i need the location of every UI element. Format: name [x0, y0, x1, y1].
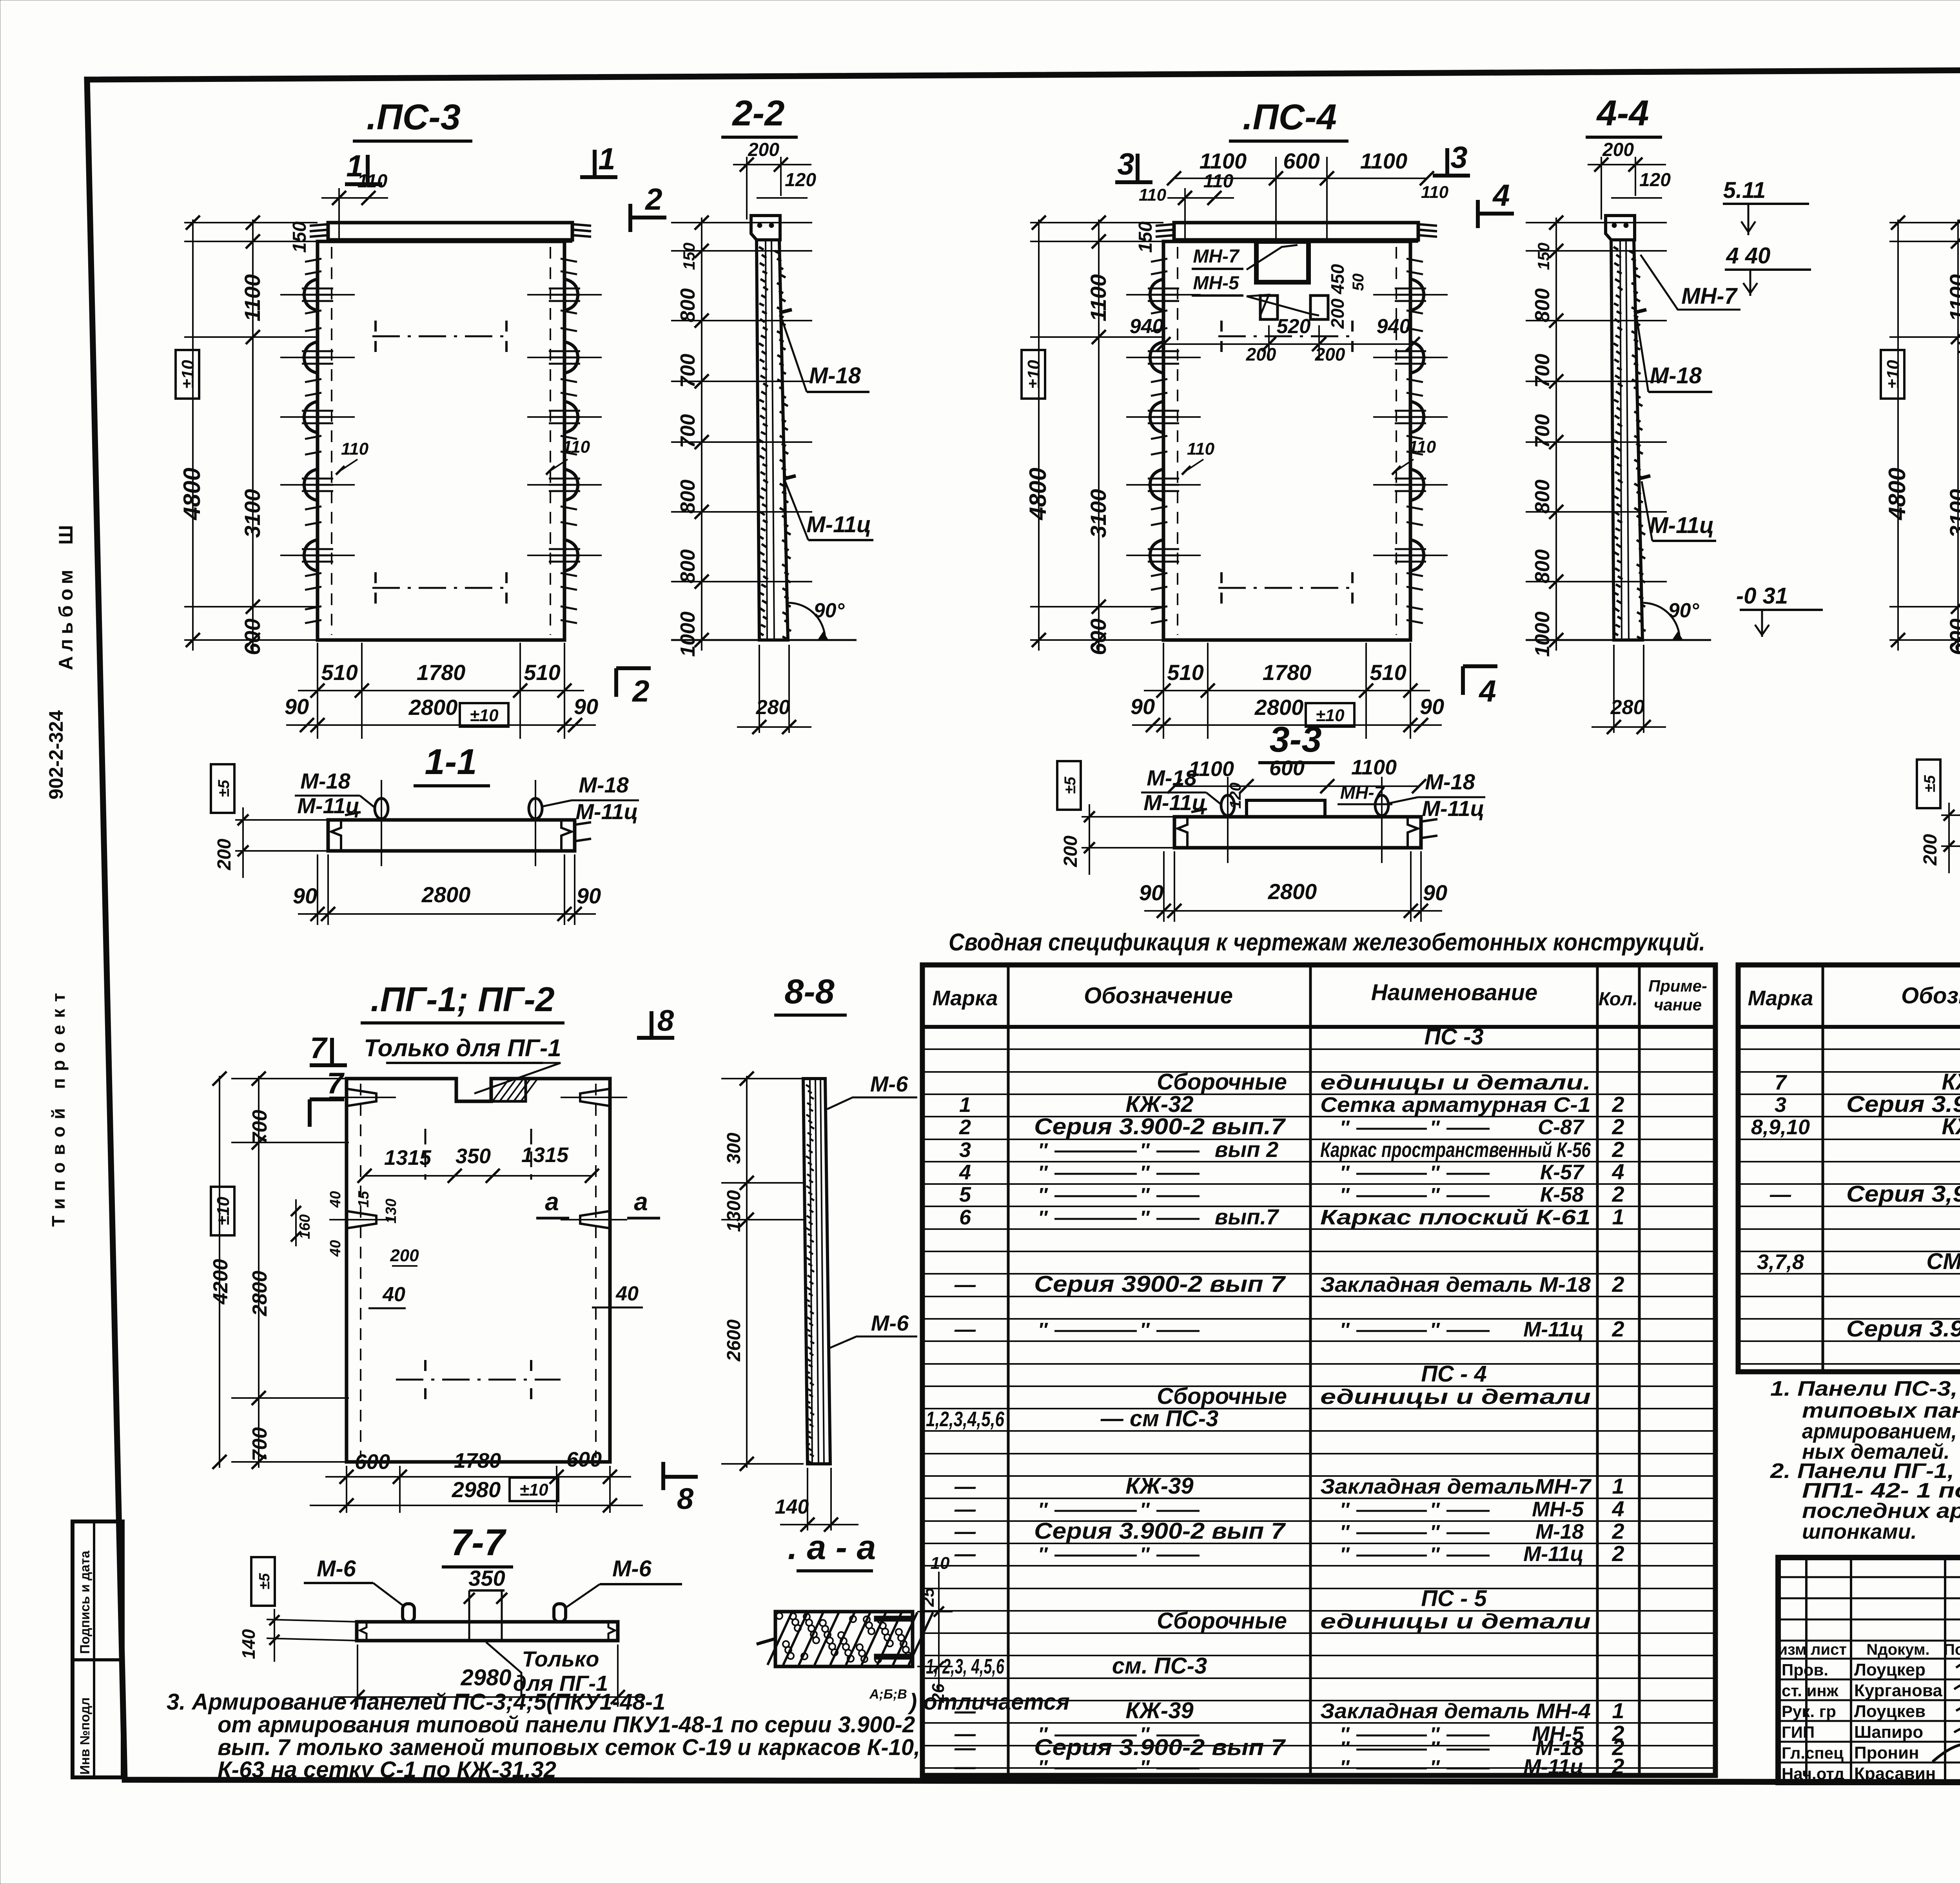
svg-text:3-3: 3-3 — [1270, 720, 1322, 760]
4-4 embed labels M-18 M-11c — [1637, 317, 1716, 541]
vertical label Album III — [55, 520, 77, 670]
vertical label Tipovoy proekt — [48, 986, 69, 1227]
svg-text:армированием, а ПС-4; ПС-5 так: армированием, а ПС-4; ПС-5 так же наличи… — [1802, 1420, 1960, 1443]
section mark 1 (right, above PS-3) — [580, 141, 617, 177]
svg-text:Лоуцкер: Лоуцкер — [1854, 1660, 1926, 1679]
title block frame — [1778, 1558, 1960, 1782]
svg-text:1315: 1315 — [521, 1143, 569, 1167]
svg-text:300: 300 — [724, 1133, 744, 1164]
section mark 7 (top left of PG-1) — [310, 1032, 347, 1065]
svg-text:М-6: М-6 — [870, 1072, 908, 1096]
svg-text:КЖ-39: КЖ-39 — [1125, 1698, 1193, 1723]
svg-text:600: 600 — [566, 1448, 602, 1471]
section 4-4 title — [1586, 93, 1662, 137]
svg-text:М-11ц: М-11ц — [1649, 513, 1714, 538]
3-3 top dims 1100 600 1100 and MN-7 plate — [1167, 756, 1426, 817]
svg-text:Красавин: Красавин — [1854, 1764, 1936, 1783]
svg-text:2: 2 — [1612, 1114, 1624, 1139]
svg-text:4: 4 — [1612, 1159, 1624, 1184]
svg-text:С-87: С-87 — [1538, 1115, 1585, 1139]
svg-text:—: — — [954, 1273, 976, 1296]
svg-text:Марка: Марка — [933, 986, 998, 1010]
svg-text:Сетка арматурная С-1: Сетка арматурная С-1 — [1320, 1093, 1591, 1117]
svg-text:М-11ц: М-11ц — [806, 512, 871, 537]
svg-text:″: ″ — [1038, 1499, 1048, 1521]
svg-text:8,9,10: 8,9,10 — [1751, 1115, 1810, 1139]
svg-text:Курганова: Курганова — [1854, 1681, 1942, 1700]
svg-text:СМ. ПГ-1: СМ. ПГ-1 — [1926, 1249, 1960, 1274]
svg-text:К-63 на сетку С-1 по КЖ-: К-63 на сетку С-1 по КЖ-31,32 — [218, 1757, 556, 1782]
elevation mark -0.31 (4-4) — [1736, 583, 1823, 637]
svg-text:ПП1- 42- 1 по серии 3,90: ПП1- 42- 1 по серии 3,900-2 вып. 2 и отл… — [1802, 1479, 1960, 1502]
svg-text:600: 600 — [355, 1450, 390, 1474]
svg-text:М-11ц: М-11ц — [1523, 1318, 1584, 1341]
svg-text:2980: 2980 — [452, 1477, 501, 1502]
panel PS-4 title — [1229, 97, 1348, 141]
svg-text:ПС - 4: ПС - 4 — [1421, 1361, 1486, 1387]
svg-text:М-6: М-6 — [317, 1556, 356, 1581]
svg-text:Рук. гр: Рук. гр — [1782, 1702, 1836, 1721]
svg-text:4-4: 4-4 — [1596, 93, 1649, 133]
svg-text:2: 2 — [1612, 1541, 1624, 1566]
svg-text:7: 7 — [1775, 1071, 1788, 1094]
svg-text:2: 2 — [1612, 1092, 1624, 1117]
svg-text:″: ″ — [1430, 1521, 1440, 1543]
svg-text:— см ПС-3: — см ПС-3 — [1100, 1406, 1219, 1431]
svg-text:чание: чание — [1654, 995, 1702, 1014]
sidebar stamp boxes (Podpis i data / Inv N podl) — [73, 1521, 123, 1777]
svg-text:М-18: М-18 — [809, 363, 861, 388]
svg-text:″: ″ — [1038, 1207, 1048, 1229]
svg-text:50: 50 — [1350, 274, 1367, 291]
svg-text:″: ″ — [1140, 1184, 1150, 1206]
svg-text:Сводная спецификация к черт: Сводная спецификация к чертежам железобе… — [949, 929, 1705, 956]
elevation mark 5.11 (4-4) — [1723, 178, 1809, 235]
panel PS-3 formwork view — [176, 171, 602, 739]
section mark 2 (right bottom of PS-3) — [616, 668, 651, 708]
svg-text:40: 40 — [382, 1283, 405, 1306]
svg-text:лист: лист — [1811, 1641, 1847, 1658]
svg-text:МН-5: МН-5 — [1193, 273, 1240, 294]
dimension chain right of PS-3 — [671, 216, 812, 657]
svg-text:″: ″ — [1340, 1162, 1350, 1184]
panel PG-1 formwork view — [209, 1072, 660, 1513]
specification table 2 — [1738, 965, 1960, 1372]
svg-text:Серия 3900-2 вып 7: Серия 3900-2 вып 7 — [1034, 1271, 1286, 1297]
svg-text:1-1: 1-1 — [425, 742, 477, 782]
section 3-3 slab — [1057, 761, 1485, 922]
svg-text:Наименование: Наименование — [1371, 980, 1537, 1005]
svg-text:Альбом Ш: Альбом Ш — [55, 520, 77, 670]
table 2 row content — [1751, 1023, 1960, 1342]
svg-text:1: 1 — [1612, 1474, 1624, 1498]
svg-text:Серия 3.900-2 вып 7: Серия 3.900-2 вып 7 — [1034, 1735, 1286, 1760]
svg-text:. а - а: . а - а — [788, 1528, 876, 1567]
svg-text:М-11ц: М-11ц — [1523, 1542, 1584, 1566]
svg-text:шпонками.: шпонками. — [1802, 1520, 1917, 1543]
svg-text:±10: ±10 — [214, 1197, 233, 1226]
svg-text:КЖ-32: КЖ-32 — [1942, 1114, 1960, 1139]
svg-text:1100: 1100 — [1200, 149, 1247, 173]
svg-text:2980: 2980 — [460, 1665, 511, 1690]
svg-text:″: ″ — [1140, 1543, 1150, 1565]
section 2-2 title — [721, 93, 798, 137]
svg-text:вып. 7 только заменой типов: вып. 7 только заменой типовых сеток С-19… — [218, 1735, 920, 1760]
svg-text:Закладная детальМН-7: Закладная детальМН-7 — [1320, 1475, 1592, 1498]
svg-text:8: 8 — [657, 1004, 674, 1037]
svg-text:1: 1 — [1612, 1204, 1624, 1229]
section 1-1 title — [414, 742, 490, 786]
svg-text:Типовой проект: Типовой проект — [48, 986, 69, 1227]
svg-text:40: 40 — [327, 1191, 344, 1208]
svg-text:Сборочные: Сборочные — [1157, 1384, 1287, 1409]
svg-text:1: 1 — [346, 149, 363, 183]
svg-text:единицы и детали.: единицы и детали. — [1320, 1071, 1591, 1094]
svg-text:140: 140 — [775, 1496, 809, 1518]
section mark 7 (left, second) — [310, 1067, 345, 1127]
svg-text:2800: 2800 — [249, 1271, 271, 1316]
svg-text:вып.7: вып.7 — [1215, 1204, 1279, 1229]
svg-text:″: ″ — [1038, 1139, 1048, 1161]
svg-text:1. Панели ПС-3, ПС-4 и ПС-5: 1. Панели ПС-3, ПС-4 и ПС-5 изготовляютс… — [1770, 1377, 1960, 1400]
label Tolko dlya PG-1 — [364, 1035, 561, 1093]
svg-text:600: 600 — [1269, 756, 1305, 780]
svg-text:″: ″ — [1340, 1543, 1350, 1565]
svg-text:Серия 3.900-2 вып.7: Серия 3.900-2 вып.7 — [1034, 1114, 1286, 1139]
svg-text:″: ″ — [1140, 1756, 1150, 1778]
svg-text:7-7: 7-7 — [451, 1521, 507, 1563]
svg-text:940: 940 — [1130, 315, 1164, 338]
svg-text:″: ″ — [1038, 1162, 1048, 1184]
svg-text:.ПС-4: .ПС-4 — [1243, 97, 1337, 137]
svg-text:КЖ-39: КЖ-39 — [1125, 1473, 1193, 1499]
section mark 1 (left, above PS-3) — [345, 149, 382, 184]
svg-text:Только: Только — [522, 1646, 599, 1671]
svg-text:М-18: М-18 — [1535, 1520, 1584, 1543]
svg-text:200: 200 — [1246, 344, 1276, 364]
svg-text:Сборочные: Сборочные — [1157, 1608, 1287, 1634]
section mark 3 (right, above PS-4) — [1433, 140, 1470, 176]
svg-text:″: ″ — [1038, 1756, 1048, 1778]
svg-text:Шапиро: Шапиро — [1854, 1723, 1923, 1742]
svg-text:Серия 3,900-2 вып. 2: Серия 3,900-2 вып. 2 — [1846, 1181, 1960, 1207]
svg-text:.ПС-3: .ПС-3 — [367, 97, 461, 137]
svg-text:40: 40 — [327, 1240, 344, 1257]
svg-text:″: ″ — [1340, 1521, 1350, 1543]
svg-text:200: 200 — [1327, 298, 1348, 329]
svg-text:ГИП: ГИП — [1782, 1723, 1815, 1741]
svg-text:МН-5: МН-5 — [1532, 1498, 1584, 1521]
svg-text:8-8: 8-8 — [784, 972, 834, 1011]
panel PS-5 formwork view — [1881, 171, 1960, 739]
title block left column texts — [1778, 1641, 1960, 1783]
svg-text:1100: 1100 — [1189, 757, 1234, 781]
section mark 4 (right bottom of PS-4) — [1463, 666, 1497, 708]
section 8-8 title — [774, 972, 847, 1015]
svg-text:МН-7: МН-7 — [1681, 283, 1738, 309]
svg-text:—: — — [1769, 1183, 1791, 1206]
svg-text:типовых панелей ПКУ1- 48-1: типовых панелей ПКУ1- 48-1 и отличаются … — [1802, 1399, 1960, 1422]
svg-text:7: 7 — [327, 1067, 345, 1100]
svg-text:Каркас пространственный К-56: Каркас пространственный К-56 — [1320, 1138, 1591, 1162]
notes 1 and 2 — [1770, 1377, 1960, 1543]
note 3 text — [167, 1687, 1070, 1782]
svg-text:3: 3 — [1775, 1093, 1786, 1117]
svg-text:2: 2 — [1612, 1272, 1624, 1296]
svg-text:последних армированием и: последних армированием и дополнительными — [1802, 1499, 1960, 1523]
svg-text:200: 200 — [390, 1246, 419, 1265]
section mark 2 (right top of PS-3) — [630, 182, 666, 232]
svg-text:Каркас плоский К-61: Каркас плоский К-61 — [1320, 1206, 1591, 1229]
vertical label 902-2-324 — [45, 710, 67, 800]
svg-text:2: 2 — [1612, 1137, 1624, 1162]
svg-text:902-2-324: 902-2-324 — [45, 710, 67, 800]
svg-text:1100: 1100 — [1351, 756, 1397, 779]
svg-text:6: 6 — [959, 1206, 971, 1229]
svg-text:″: ″ — [1340, 1117, 1350, 1139]
svg-text:Кол.: Кол. — [1599, 989, 1638, 1010]
svg-text:350: 350 — [468, 1566, 505, 1590]
svg-text:1: 1 — [598, 141, 615, 176]
svg-text:″: ″ — [1430, 1543, 1440, 1565]
svg-text:″: ″ — [1140, 1162, 1150, 1184]
svg-text:Закладная деталь МН-4: Закладная деталь МН-4 — [1320, 1699, 1591, 1723]
svg-text:2: 2 — [1612, 1754, 1624, 1779]
svg-text:Марка: Марка — [1748, 986, 1813, 1010]
svg-text:″: ″ — [1430, 1117, 1440, 1139]
svg-text:Нач.отд: Нач.отд — [1782, 1764, 1844, 1783]
svg-text:от армирования типовой пане: от армирования типовой панели ПКУ1-48-1 … — [218, 1712, 915, 1737]
section 7-7 slab — [238, 1556, 682, 1707]
svg-text:) отличается: ) отличается — [907, 1689, 1070, 1715]
svg-text:2: 2 — [959, 1115, 971, 1139]
svg-text:110: 110 — [1139, 185, 1167, 205]
svg-text:40: 40 — [615, 1282, 639, 1305]
section 3-3 title — [1258, 720, 1335, 763]
svg-text:Гл.спец: Гл.спец — [1782, 1744, 1844, 1762]
svg-text:4: 4 — [1492, 178, 1510, 212]
svg-text:110: 110 — [1421, 183, 1449, 202]
svg-text:″: ″ — [1340, 1756, 1350, 1778]
svg-text:4: 4 — [1478, 674, 1496, 708]
svg-text:2: 2 — [1612, 1316, 1624, 1341]
svg-text:ст. инж: ст. инж — [1782, 1681, 1839, 1700]
section 1-1 slab — [211, 764, 639, 925]
svg-text:К-57: К-57 — [1540, 1161, 1585, 1184]
svg-text:—: — — [954, 1755, 976, 1779]
svg-text:1100: 1100 — [1360, 149, 1407, 173]
section a-a detail — [757, 1554, 953, 1703]
PS-4 embedded window detail MN-7 — [1130, 241, 1420, 364]
svg-text:520: 520 — [1277, 315, 1311, 338]
svg-text:3. Армирование панелей ПС-3: 3. Армирование панелей ПС-3;4;5(ПКУ1-48-… — [167, 1689, 665, 1715]
svg-text:—: — — [954, 1699, 976, 1723]
svg-text:140: 140 — [238, 1629, 259, 1659]
panel PG-1;PG-2 title — [361, 980, 564, 1023]
svg-text:2: 2 — [644, 182, 662, 216]
svg-text:1780: 1780 — [454, 1449, 501, 1472]
svg-text:см. ПС-3: см. ПС-3 — [1112, 1653, 1207, 1679]
svg-text:″: ″ — [1430, 1184, 1440, 1206]
svg-text:″: ″ — [1430, 1319, 1440, 1341]
svg-text:1300: 1300 — [724, 1190, 744, 1232]
svg-text:—: — — [954, 1520, 976, 1543]
svg-text:″: ″ — [1140, 1139, 1150, 1161]
section a-a title — [788, 1528, 876, 1571]
svg-text:.ПГ-1; ПГ-2: .ПГ-1; ПГ-2 — [370, 980, 554, 1019]
svg-text:1315: 1315 — [384, 1146, 432, 1170]
svg-text:2: 2 — [1612, 1182, 1624, 1206]
section 2-2 column — [671, 140, 857, 734]
svg-text:Серия 3.900-2 вып 7: Серия 3.900-2 вып 7 — [1034, 1518, 1286, 1544]
svg-text:700: 700 — [249, 1110, 271, 1144]
svg-text:2600: 2600 — [724, 1319, 744, 1362]
svg-text:10: 10 — [931, 1554, 950, 1573]
svg-text:МН-7: МН-7 — [1340, 782, 1385, 803]
section mark 3 (left, above PS-4) — [1115, 147, 1152, 182]
section 5-5 slab — [1917, 760, 1960, 920]
svg-text:—: — — [954, 1318, 976, 1341]
svg-text:1: 1 — [959, 1093, 971, 1117]
section mark 8 (top right of PG-1) — [637, 1004, 674, 1038]
svg-text:А;Б;В: А;Б;В — [869, 1687, 907, 1702]
svg-text:4: 4 — [959, 1161, 971, 1184]
svg-text:±10: ±10 — [519, 1480, 548, 1500]
svg-text:4200: 4200 — [209, 1259, 232, 1305]
svg-text:±5: ±5 — [256, 1573, 273, 1590]
svg-text:М-11ц: М-11ц — [1523, 1755, 1584, 1779]
svg-text:3 51: 3 51 — [1958, 326, 1960, 350]
svg-text:1,2,3,4,5,6: 1,2,3,4,5,6 — [926, 1407, 1005, 1431]
svg-text:Приме-: Приме- — [1648, 977, 1707, 995]
svg-text:а: а — [545, 1188, 559, 1216]
svg-text:а: а — [634, 1188, 648, 1216]
dimension chain right of PS-4 — [1526, 216, 1667, 657]
svg-text:Инв №подл: Инв №подл — [78, 1697, 93, 1775]
section 7-7 title — [442, 1521, 513, 1590]
embed label MN-7 (4-4) — [1641, 255, 1740, 310]
svg-text:Сборочные: Сборочные — [1157, 1069, 1287, 1095]
panel PS-3 title — [353, 97, 472, 141]
svg-text:600: 600 — [1283, 149, 1319, 173]
svg-text:940: 940 — [1377, 315, 1411, 338]
svg-text:единицы и детали: единицы и детали — [1320, 1610, 1591, 1633]
PS-4 top dimensions 1100 600 1100 — [1139, 149, 1449, 243]
section 8-8 column — [721, 1072, 917, 1532]
svg-text:МН-7: МН-7 — [1193, 246, 1240, 267]
svg-text:160: 160 — [297, 1214, 313, 1239]
svg-text:—: — — [954, 1542, 976, 1566]
elevation mark 4.40 (4-4) — [1725, 243, 1811, 296]
svg-text:350: 350 — [456, 1144, 491, 1168]
svg-text:5.11: 5.11 — [1723, 178, 1766, 203]
svg-text:Пров.: Пров. — [1782, 1661, 1828, 1679]
section 4-4 column — [1526, 140, 1711, 734]
svg-text:—: — — [954, 1475, 976, 1498]
table 1 row content — [926, 1024, 1624, 1779]
2-2 embed labels M-18 M-11c — [781, 316, 873, 540]
svg-text:3: 3 — [1450, 140, 1467, 174]
svg-text:Подпись: Подпись — [1944, 1641, 1960, 1658]
svg-text:4: 4 — [1612, 1496, 1624, 1521]
svg-text:″: ″ — [1140, 1207, 1150, 1229]
svg-text:Подпись и дата: Подпись и дата — [78, 1550, 93, 1654]
svg-text:М-18: М-18 — [1650, 363, 1702, 388]
svg-text:″: ″ — [1140, 1319, 1150, 1341]
svg-text:3,7,8: 3,7,8 — [1757, 1250, 1804, 1274]
svg-text:2-2: 2-2 — [732, 93, 785, 133]
section mark 4 (right top of PS-4) — [1478, 178, 1514, 228]
svg-text:″: ″ — [1340, 1184, 1350, 1206]
svg-text:8: 8 — [677, 1482, 694, 1516]
svg-text:М-6: М-6 — [612, 1556, 652, 1581]
svg-text:КЖ-32: КЖ-32 — [1942, 1069, 1960, 1095]
svg-text:″: ″ — [1340, 1319, 1350, 1341]
svg-text:-0 31: -0 31 — [1736, 583, 1788, 609]
svg-text:Серия 3.900-2 вып. 2: Серия 3.900-2 вып. 2 — [1846, 1092, 1960, 1117]
svg-text:Nдокум.: Nдокум. — [1866, 1641, 1929, 1658]
svg-text:7: 7 — [310, 1032, 328, 1065]
specification heading — [949, 929, 1705, 956]
svg-text:изм: изм — [1778, 1641, 1806, 1658]
svg-text:вып 2: вып 2 — [1215, 1137, 1279, 1162]
svg-text:ПС - 5: ПС - 5 — [1421, 1586, 1487, 1611]
svg-text:Лоуцкев: Лоуцкев — [1854, 1702, 1926, 1721]
panel PS-4 formwork view — [1022, 171, 1448, 739]
svg-text:Пронин: Пронин — [1854, 1743, 1919, 1763]
svg-text:″: ″ — [1038, 1543, 1048, 1565]
svg-text:Обозначение: Обозначение — [1084, 983, 1233, 1008]
elevation mark 3.51 (PS-5) — [1958, 326, 1960, 376]
svg-text:Серия 3.900-2. вып. 2: Серия 3.900-2. вып. 2 — [1846, 1316, 1960, 1342]
svg-text:ПС -3: ПС -3 — [1424, 1024, 1483, 1050]
svg-text:450: 450 — [1327, 264, 1348, 294]
svg-text:1: 1 — [1612, 1698, 1624, 1723]
svg-text:Закладная деталь М-18: Закладная деталь М-18 — [1320, 1273, 1591, 1296]
svg-text:″: ″ — [1340, 1499, 1350, 1521]
svg-text:2: 2 — [1612, 1519, 1624, 1543]
svg-text:″: ″ — [1140, 1499, 1150, 1521]
svg-text:2: 2 — [632, 674, 649, 708]
svg-text:15: 15 — [356, 1191, 372, 1208]
svg-text:М-6: М-6 — [871, 1311, 909, 1335]
svg-text:4 40: 4 40 — [1726, 243, 1771, 268]
section mark 8 (bottom right of PG-1) — [663, 1462, 698, 1516]
svg-text:5: 5 — [959, 1183, 971, 1206]
svg-text:700: 700 — [249, 1427, 271, 1462]
svg-text:3: 3 — [959, 1138, 971, 1162]
svg-text:3: 3 — [1117, 147, 1134, 181]
svg-text:Только для ПГ-1: Только для ПГ-1 — [364, 1035, 561, 1062]
svg-text:130: 130 — [383, 1199, 399, 1223]
svg-text:1, 2,3, 4,5,6: 1, 2,3, 4,5,6 — [926, 1655, 1005, 1678]
svg-text:″: ″ — [1430, 1499, 1440, 1521]
svg-text:″: ″ — [1430, 1162, 1440, 1184]
svg-text:—: — — [954, 1498, 976, 1521]
svg-text:″: ″ — [1038, 1319, 1048, 1341]
svg-text:Обозначение: Обозначение — [1901, 983, 1960, 1008]
svg-text:единицы и детали: единицы и детали — [1320, 1385, 1591, 1409]
specification table 1 — [922, 965, 1715, 1775]
svg-text:120: 120 — [1227, 783, 1244, 809]
svg-text:″: ″ — [1430, 1756, 1440, 1778]
svg-text:КЖ-32: КЖ-32 — [1125, 1092, 1193, 1117]
svg-text:К-58: К-58 — [1540, 1183, 1584, 1206]
svg-text:″: ″ — [1038, 1184, 1048, 1206]
